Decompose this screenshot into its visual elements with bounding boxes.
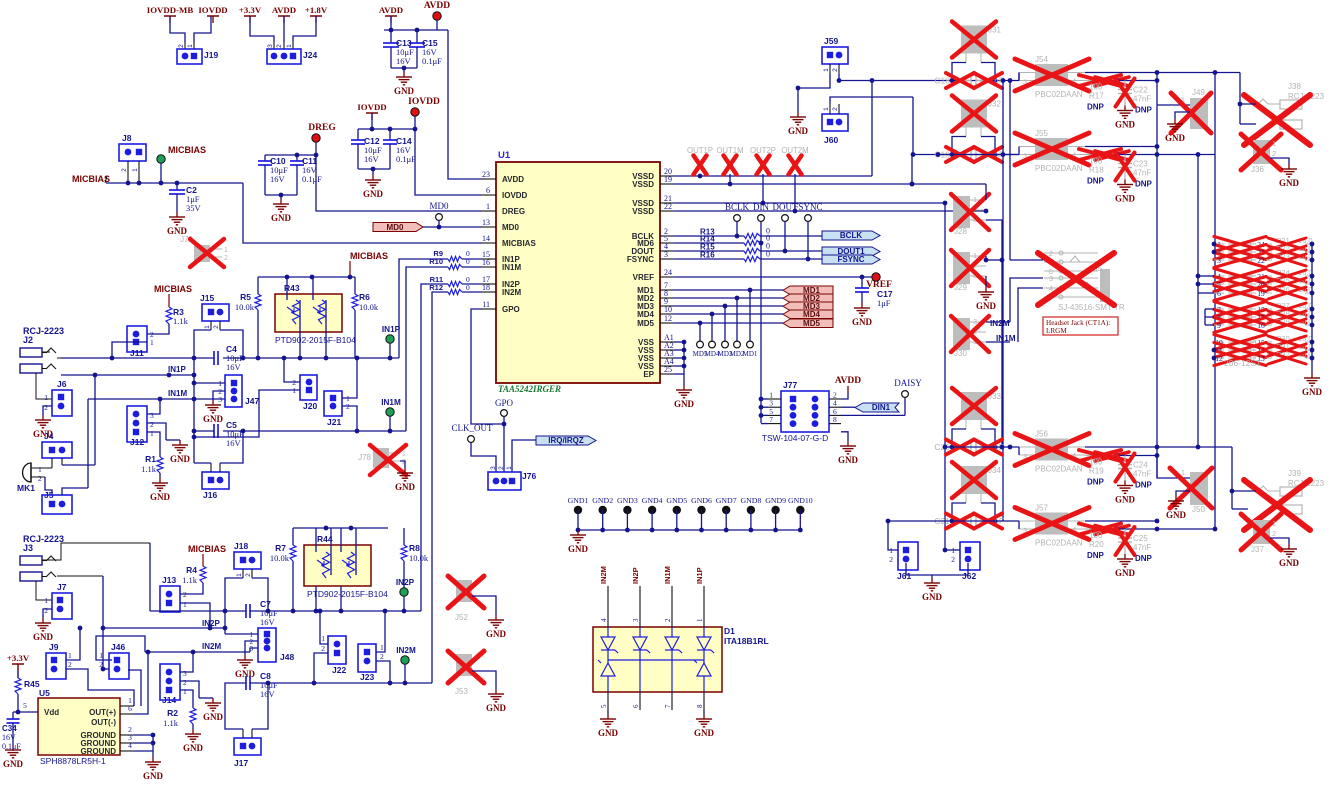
svg-text:22: 22	[664, 202, 672, 211]
svg-text:J7: J7	[57, 582, 67, 592]
svg-text:2: 2	[44, 606, 48, 615]
svg-text:D1: D1	[724, 626, 735, 636]
svg-text:GPO: GPO	[502, 305, 520, 314]
svg-text:7: 7	[769, 415, 773, 424]
svg-text:DREG: DREG	[308, 123, 336, 133]
svg-text:J53: J53	[455, 687, 468, 696]
svg-text:GND7: GND7	[716, 496, 737, 505]
svg-text:J52: J52	[455, 613, 468, 622]
svg-text:R2: R2	[167, 708, 178, 718]
svg-text:C23: C23	[1133, 160, 1148, 169]
svg-text:1: 1	[187, 44, 194, 48]
svg-text:DNP: DNP	[1087, 551, 1105, 560]
svg-text:PBC02DAAN: PBC02DAAN	[1035, 164, 1083, 173]
svg-text:DNP: DNP	[1135, 180, 1153, 189]
svg-text:GND: GND	[976, 301, 997, 311]
svg-text:8: 8	[696, 704, 704, 708]
svg-text:ITA18B1RL: ITA18B1RL	[724, 636, 769, 646]
svg-text:IOVDD: IOVDD	[357, 102, 386, 112]
svg-text:10.0k: 10.0k	[235, 302, 255, 312]
svg-text:J22: J22	[332, 665, 346, 675]
svg-text:J4: J4	[44, 431, 54, 441]
svg-text:16: 16	[482, 258, 490, 267]
svg-text:GND: GND	[1166, 510, 1187, 520]
svg-text:GND: GND	[3, 759, 24, 769]
svg-text:2: 2	[245, 573, 252, 577]
svg-text:100: 100	[1089, 83, 1103, 92]
svg-text:1: 1	[380, 643, 384, 652]
svg-text:GND: GND	[486, 629, 507, 639]
svg-text:OUT2P: OUT2P	[750, 146, 776, 155]
svg-text:MICBIAS: MICBIAS	[154, 284, 192, 294]
svg-text:2: 2	[38, 474, 42, 483]
svg-text:PBC02DAAN: PBC02DAAN	[1035, 539, 1083, 548]
svg-text:R18: R18	[1089, 166, 1104, 175]
svg-text:47nF: 47nF	[1133, 543, 1151, 552]
svg-text:MICBIAS: MICBIAS	[72, 174, 110, 184]
svg-text:DNP: DNP	[1135, 554, 1153, 563]
svg-text:3: 3	[632, 618, 640, 622]
svg-text:J48: J48	[280, 652, 294, 662]
svg-text:GND6: GND6	[691, 496, 712, 505]
svg-text:0: 0	[766, 250, 770, 259]
svg-text:SPH8878LR5H-1: SPH8878LR5H-1	[40, 756, 106, 766]
svg-text:J18: J18	[234, 541, 248, 551]
svg-text:12: 12	[664, 314, 672, 323]
svg-text:1μF: 1μF	[877, 298, 891, 308]
svg-text:J21: J21	[327, 417, 341, 427]
svg-text:R16: R16	[700, 251, 715, 260]
svg-text:+3.3V: +3.3V	[239, 5, 262, 15]
svg-text:MD0: MD0	[502, 223, 519, 232]
svg-text:IN1M: IN1M	[663, 566, 672, 584]
svg-text:U1: U1	[498, 150, 511, 161]
svg-text:2: 2	[1049, 249, 1053, 258]
svg-text:10.0k: 10.0k	[409, 553, 429, 563]
svg-text:BCLK: BCLK	[725, 202, 750, 212]
svg-text:IN2P: IN2P	[396, 578, 415, 587]
svg-text:J13: J13	[162, 575, 176, 585]
svg-text:J23: J23	[360, 672, 374, 682]
svg-text:IN1M: IN1M	[502, 263, 521, 272]
svg-text:C22: C22	[1133, 86, 1148, 95]
svg-text:R7: R7	[275, 543, 286, 553]
svg-text:R8: R8	[409, 543, 420, 553]
svg-text:1: 1	[823, 68, 830, 72]
svg-text:16V: 16V	[260, 689, 276, 699]
svg-text:R6: R6	[359, 292, 370, 302]
svg-text:GND: GND	[203, 712, 224, 722]
svg-text:1: 1	[696, 618, 704, 622]
svg-text:19: 19	[664, 175, 672, 184]
svg-text:2: 2	[321, 644, 325, 653]
svg-text:Vdd: Vdd	[44, 708, 59, 717]
svg-text:EP: EP	[643, 370, 654, 379]
svg-text:OUT(+): OUT(+)	[89, 708, 116, 717]
svg-text:IN2M: IN2M	[202, 642, 221, 651]
svg-text:GND: GND	[1115, 194, 1136, 204]
svg-text:2: 2	[178, 44, 185, 48]
svg-text:2: 2	[213, 325, 220, 329]
svg-text:J6: J6	[57, 379, 67, 389]
svg-text:J15: J15	[200, 293, 214, 303]
svg-text:2: 2	[1272, 149, 1276, 158]
svg-text:OUT1M: OUT1M	[716, 146, 743, 155]
svg-text:GND: GND	[1115, 120, 1136, 130]
svg-text:16V: 16V	[226, 362, 242, 372]
svg-text:OUT1P: OUT1P	[687, 146, 713, 155]
svg-text:J78: J78	[358, 453, 371, 462]
svg-text:J28: J28	[954, 227, 967, 236]
svg-text:+3.3V: +3.3V	[7, 653, 30, 663]
svg-text:MD0: MD0	[429, 201, 449, 211]
svg-text:GND: GND	[363, 189, 384, 199]
svg-text:4: 4	[600, 618, 608, 622]
svg-text:5: 5	[23, 701, 27, 710]
svg-text:1: 1	[224, 247, 228, 254]
svg-text:MICBIAS: MICBIAS	[350, 251, 388, 261]
svg-text:2: 2	[276, 44, 283, 48]
svg-text:DNP: DNP	[1135, 481, 1153, 490]
svg-text:3: 3	[267, 44, 274, 48]
svg-text:1: 1	[236, 573, 243, 577]
svg-text:2: 2	[832, 107, 839, 111]
svg-text:GND: GND	[203, 414, 224, 424]
svg-text:1: 1	[402, 451, 406, 458]
svg-text:VSSD: VSSD	[632, 180, 654, 189]
svg-text:MD5: MD5	[637, 319, 654, 328]
svg-text:4: 4	[128, 741, 132, 750]
svg-text:PBC02DAAN: PBC02DAAN	[1035, 465, 1083, 474]
svg-text:VSSD: VSSD	[632, 207, 654, 216]
svg-text:IN1P: IN1P	[382, 325, 401, 334]
svg-text:47nF: 47nF	[1133, 95, 1151, 104]
svg-text:25: 25	[664, 365, 672, 374]
svg-text:47nF: 47nF	[1133, 169, 1151, 178]
svg-text:0: 0	[466, 257, 470, 266]
svg-text:R4: R4	[186, 565, 197, 575]
svg-text:1: 1	[321, 634, 325, 643]
svg-text:1: 1	[823, 107, 830, 111]
svg-text:100: 100	[1089, 157, 1103, 166]
svg-text:DAISY: DAISY	[894, 378, 922, 388]
svg-text:J12: J12	[130, 437, 144, 447]
svg-text:2: 2	[664, 618, 672, 622]
svg-text:0.1μF: 0.1μF	[2, 742, 21, 751]
svg-text:GND: GND	[394, 86, 415, 96]
svg-text:206-12ST: 206-12ST	[1224, 358, 1261, 368]
svg-text:IRQ/IRQZ: IRQ/IRQZ	[548, 436, 584, 445]
svg-text:GND3: GND3	[617, 496, 638, 505]
svg-text:2: 2	[380, 652, 384, 661]
svg-text:MICBIAS: MICBIAS	[168, 145, 206, 155]
svg-text:1: 1	[204, 325, 211, 329]
svg-text:IOVDD-MB: IOVDD-MB	[147, 5, 194, 15]
svg-text:MD0: MD0	[387, 223, 404, 232]
svg-text:13: 13	[482, 218, 490, 227]
svg-text:IN2P: IN2P	[631, 567, 640, 584]
svg-text:U5: U5	[39, 688, 50, 698]
svg-text:J55: J55	[1035, 129, 1048, 138]
svg-text:1.1k: 1.1k	[163, 718, 179, 728]
svg-text:GND: GND	[1279, 558, 1300, 568]
svg-text:2: 2	[150, 420, 154, 429]
svg-text:J20: J20	[303, 401, 317, 411]
svg-text:J46: J46	[111, 642, 125, 652]
svg-text:3: 3	[150, 411, 154, 420]
svg-text:2: 2	[832, 68, 839, 72]
svg-text:GND9: GND9	[765, 496, 786, 505]
svg-text:GPO: GPO	[495, 398, 514, 408]
svg-text:FSYNC: FSYNC	[627, 255, 654, 264]
svg-text:J16: J16	[203, 490, 217, 500]
svg-text:J61: J61	[897, 571, 911, 581]
svg-text:MK1: MK1	[17, 483, 35, 493]
svg-text:C25: C25	[1133, 534, 1148, 543]
svg-text:J77: J77	[783, 380, 797, 390]
svg-text:2: 2	[121, 168, 128, 172]
svg-text:6: 6	[486, 186, 490, 195]
svg-text:MD5: MD5	[803, 319, 820, 328]
svg-text:1.1k: 1.1k	[173, 316, 189, 326]
svg-text:10.0k: 10.0k	[359, 302, 379, 312]
svg-text:J59: J59	[824, 36, 838, 46]
svg-text:1: 1	[44, 596, 48, 605]
svg-text:J30: J30	[954, 349, 967, 358]
svg-text:1: 1	[150, 338, 154, 347]
svg-text:J2: J2	[23, 335, 33, 345]
svg-text:GND: GND	[852, 317, 873, 327]
svg-text:J11: J11	[130, 348, 144, 358]
svg-text:J56: J56	[1035, 430, 1048, 439]
svg-text:MICBIAS: MICBIAS	[188, 544, 226, 554]
svg-text:0.1μF: 0.1μF	[422, 56, 442, 66]
svg-text:GND5: GND5	[666, 496, 687, 505]
svg-text:1: 1	[286, 44, 293, 48]
svg-text:3: 3	[1049, 274, 1053, 283]
svg-text:GND: GND	[838, 455, 859, 465]
svg-text:11: 11	[482, 300, 490, 309]
svg-text:1: 1	[183, 600, 187, 609]
svg-text:0.1μF: 0.1μF	[396, 154, 416, 164]
svg-text:2: 2	[889, 555, 893, 564]
svg-text:GND: GND	[1115, 495, 1136, 505]
svg-text:DNP: DNP	[1087, 103, 1105, 112]
svg-text:GND: GND	[170, 454, 191, 464]
svg-text:1: 1	[486, 202, 490, 211]
svg-text:J50: J50	[1192, 505, 1205, 514]
svg-text:IN1M: IN1M	[381, 398, 401, 407]
svg-text:MD4: MD4	[803, 310, 820, 319]
svg-text:3: 3	[183, 669, 187, 678]
svg-text:1: 1	[183, 687, 187, 696]
svg-text:J49: J49	[1192, 88, 1205, 97]
svg-text:AVDD: AVDD	[272, 5, 296, 15]
svg-text:3: 3	[490, 466, 497, 470]
svg-text:FSYNC: FSYNC	[837, 255, 864, 264]
svg-text:MD4: MD4	[637, 310, 654, 319]
svg-text:8: 8	[833, 415, 837, 424]
svg-text:5: 5	[600, 704, 608, 708]
svg-text:GND: GND	[568, 544, 589, 554]
svg-text:IN2M: IN2M	[990, 319, 1010, 328]
svg-text:GND: GND	[1115, 568, 1136, 578]
svg-text:GND: GND	[143, 771, 164, 781]
svg-text:OUT(-): OUT(-)	[91, 718, 116, 727]
svg-text:7: 7	[664, 704, 672, 708]
svg-text:1.1k: 1.1k	[141, 464, 157, 474]
svg-text:1.1k: 1.1k	[182, 575, 198, 585]
svg-text:GND: GND	[694, 728, 715, 738]
svg-text:J8: J8	[122, 133, 132, 143]
svg-text:24: 24	[664, 268, 672, 277]
svg-text:3: 3	[1217, 256, 1221, 265]
svg-text:100: 100	[1089, 458, 1103, 467]
svg-text:1: 1	[132, 168, 139, 172]
svg-text:IN1P: IN1P	[168, 365, 186, 374]
svg-text:+1.8V: +1.8V	[305, 5, 328, 15]
svg-text:GND: GND	[183, 743, 204, 753]
svg-text:MICBIAS: MICBIAS	[502, 239, 536, 248]
svg-text:TSW-104-07-G-D: TSW-104-07-G-D	[762, 433, 828, 443]
svg-text:IN2M: IN2M	[599, 566, 608, 584]
svg-text:IN1M: IN1M	[168, 389, 187, 398]
svg-text:C34: C34	[2, 724, 17, 733]
svg-text:14: 14	[482, 234, 490, 243]
svg-text:GND: GND	[674, 399, 695, 409]
svg-text:GND: GND	[922, 592, 943, 602]
svg-text:BCLK: BCLK	[840, 231, 862, 240]
svg-text:Headset Jack (CT1A):: Headset Jack (CT1A):	[1046, 319, 1110, 327]
svg-text:DNP: DNP	[1135, 106, 1153, 115]
svg-text:J24: J24	[303, 50, 317, 60]
svg-text:6: 6	[632, 704, 640, 708]
svg-text:GND4: GND4	[642, 496, 663, 505]
svg-text:GND: GND	[598, 728, 619, 738]
svg-text:GND: GND	[395, 482, 416, 492]
svg-text:GND1: GND1	[568, 496, 589, 505]
svg-text:3: 3	[218, 395, 222, 404]
svg-text:GND: GND	[1165, 133, 1186, 143]
svg-text:16V: 16V	[364, 154, 380, 164]
svg-text:IOVDD: IOVDD	[198, 5, 227, 15]
svg-text:IN2M: IN2M	[396, 646, 416, 655]
svg-text:J60: J60	[824, 135, 838, 145]
svg-text:1: 1	[68, 651, 72, 660]
svg-text:J39: J39	[1288, 469, 1301, 478]
svg-text:R20: R20	[1089, 540, 1104, 549]
svg-text:GND8: GND8	[741, 496, 762, 505]
svg-text:1: 1	[1272, 139, 1276, 148]
svg-text:23: 23	[482, 170, 490, 179]
svg-text:AVDD: AVDD	[424, 1, 450, 11]
svg-text:1: 1	[44, 393, 48, 402]
svg-text:GND: GND	[271, 213, 292, 223]
svg-text:FSYNC: FSYNC	[793, 202, 822, 212]
svg-text:J3: J3	[23, 543, 33, 553]
svg-text:16V: 16V	[260, 617, 276, 627]
svg-text:R1: R1	[145, 454, 156, 464]
svg-text:IN1P: IN1P	[695, 567, 704, 584]
svg-text:PBC02DAAN: PBC02DAAN	[1035, 90, 1083, 99]
svg-text:PTD902-2015F-B104: PTD902-2015F-B104	[275, 335, 356, 345]
svg-text:16V: 16V	[2, 733, 16, 742]
svg-text:2: 2	[498, 466, 505, 470]
svg-text:10.0k: 10.0k	[270, 553, 290, 563]
svg-text:R17: R17	[1089, 92, 1104, 101]
svg-text:GND: GND	[150, 492, 171, 502]
svg-text:R5: R5	[240, 292, 251, 302]
svg-text:J37: J37	[1251, 545, 1264, 554]
svg-text:AVDD: AVDD	[379, 5, 403, 15]
svg-text:J19: J19	[204, 50, 218, 60]
svg-text:R45: R45	[24, 679, 40, 689]
svg-text:GND2: GND2	[592, 496, 613, 505]
svg-text:16V: 16V	[270, 174, 286, 184]
svg-text:DREG: DREG	[502, 207, 525, 216]
svg-text:J76: J76	[522, 471, 536, 481]
svg-text:2: 2	[44, 403, 48, 412]
svg-text:J62: J62	[962, 571, 976, 581]
svg-text:DNP: DNP	[1087, 478, 1105, 487]
svg-text:10: 10	[664, 305, 672, 314]
svg-text:J9: J9	[49, 642, 59, 652]
svg-text:DNP: DNP	[1087, 177, 1105, 186]
svg-text:47nF: 47nF	[1133, 470, 1151, 479]
svg-text:MD1: MD1	[743, 350, 758, 358]
svg-text:GROUND: GROUND	[80, 747, 116, 756]
svg-text:2: 2	[183, 678, 187, 687]
svg-text:C18: C18	[934, 76, 950, 86]
svg-text:J47: J47	[245, 396, 259, 406]
svg-text:J57: J57	[1035, 504, 1048, 513]
svg-text:3: 3	[664, 250, 668, 259]
svg-text:J29: J29	[954, 283, 967, 292]
svg-text:18: 18	[482, 283, 490, 292]
svg-text:DIN: DIN	[753, 202, 769, 212]
svg-text:16V: 16V	[396, 56, 412, 66]
svg-text:TAA5242IRGER: TAA5242IRGER	[498, 384, 561, 394]
svg-text:OUT2M: OUT2M	[781, 146, 808, 155]
svg-text:2: 2	[1272, 529, 1276, 538]
svg-text:1: 1	[506, 466, 513, 470]
svg-text:J38: J38	[1288, 82, 1301, 91]
svg-text:J54: J54	[1035, 55, 1048, 64]
svg-text:2: 2	[224, 255, 228, 262]
svg-text:GND: GND	[1302, 387, 1323, 397]
svg-text:J17: J17	[234, 758, 248, 768]
svg-text:AVDD: AVDD	[502, 175, 524, 184]
svg-text:GND: GND	[788, 126, 809, 136]
svg-text:AVDD: AVDD	[835, 376, 861, 386]
svg-text:35V: 35V	[186, 203, 202, 213]
svg-text:IN2P: IN2P	[202, 619, 220, 628]
svg-text:2: 2	[951, 555, 955, 564]
svg-text:6: 6	[1217, 289, 1221, 298]
svg-text:16V: 16V	[226, 438, 242, 448]
svg-text:IOVDD: IOVDD	[408, 97, 440, 107]
svg-text:VREF: VREF	[633, 273, 654, 282]
svg-text:GND10: GND10	[788, 496, 813, 505]
svg-text:1: 1	[38, 465, 42, 474]
svg-text:1: 1	[150, 429, 154, 438]
svg-text:C24: C24	[1133, 461, 1148, 470]
svg-text:R19: R19	[1089, 467, 1104, 476]
svg-text:IOVDD: IOVDD	[502, 191, 528, 200]
svg-text:0.1μF: 0.1μF	[302, 174, 322, 184]
svg-text:100: 100	[1089, 531, 1103, 540]
svg-text:GND: GND	[33, 632, 54, 642]
